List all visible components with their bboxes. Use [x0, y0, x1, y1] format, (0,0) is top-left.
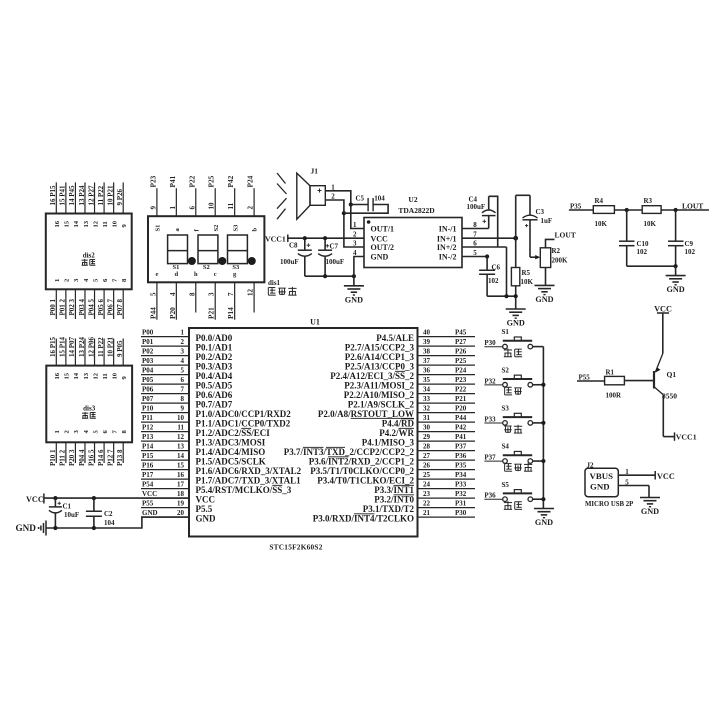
capacitor C6 102 [479, 257, 500, 297]
svg-text:dis2: dis2 [83, 252, 96, 260]
capacitor C7 100uF [318, 236, 344, 276]
svg-text:VCC: VCC [196, 494, 216, 504]
U1 left pin 2 (P01) [141, 338, 233, 352]
svg-text:P22: P22 [455, 386, 467, 394]
capacitor C5 104 [344, 195, 388, 214]
svg-text:10: 10 [208, 202, 216, 210]
svg-text:P33: P33 [455, 481, 467, 489]
U1 left pin 12 (P13) [141, 433, 266, 447]
svg-text:P01 2: P01 2 [59, 298, 67, 315]
ground top-right [666, 276, 686, 295]
svg-text:P03: P03 [142, 357, 154, 365]
potentiometer R2 200K [530, 230, 576, 285]
svg-text:25: 25 [423, 471, 431, 479]
svg-text:9 P26: 9 P26 [116, 188, 124, 205]
U1 right pin 30 (P42) [379, 424, 475, 438]
svg-text:P0.4/AD4: P0.4/AD4 [196, 371, 233, 381]
svg-text:P3.4/T0/T1CLKO/ECI_2: P3.4/T0/T1CLKO/ECI_2 [317, 475, 414, 485]
svg-text:d: d [175, 271, 179, 278]
U1 right pin 23 (P32) [374, 490, 475, 504]
U1 left pin 1 (P00) [141, 329, 233, 343]
svg-text:c: c [214, 271, 217, 278]
svg-text:3: 3 [181, 348, 185, 356]
svg-text:200K: 200K [552, 257, 569, 265]
svg-text:P1.4/ADC4/MISO: P1.4/ADC4/MISO [196, 447, 266, 457]
svg-text:P2.5/A13/CCP0_3: P2.5/A13/CCP0_3 [345, 361, 415, 371]
svg-text:C9: C9 [685, 240, 694, 248]
U1 right pin 22 (P31) [363, 500, 475, 514]
MCU U1 box [189, 318, 418, 537]
U1 right pin 35 (P23) [344, 376, 475, 390]
U1 right pin 27 (P36) [309, 452, 475, 466]
svg-text:IN-/1: IN-/1 [439, 225, 457, 234]
svg-text:P11 2: P11 2 [59, 449, 67, 466]
push button S3 (P33) [484, 405, 543, 434]
svg-text:P0.2/AD2: P0.2/AD2 [196, 352, 233, 362]
svg-text:12 P06: 12 P06 [87, 336, 95, 357]
svg-text:P14: P14 [142, 443, 154, 451]
svg-text:C8: C8 [289, 242, 298, 250]
svg-text:4: 4 [181, 357, 185, 365]
svg-text:22: 22 [423, 500, 431, 508]
U1 left pin 16 (P17) [141, 471, 301, 485]
svg-text:P26: P26 [455, 348, 467, 356]
svg-text:104: 104 [374, 195, 385, 203]
svg-text:P23: P23 [148, 175, 157, 187]
svg-text:P41: P41 [455, 433, 467, 441]
svg-text:18: 18 [177, 490, 185, 498]
power VCC above Q1 [654, 304, 672, 353]
svg-text:P32: P32 [455, 490, 467, 498]
connector J2 MICRO USB 2P [585, 462, 633, 508]
svg-text:P3.1/TXD/T2: P3.1/TXD/T2 [363, 504, 415, 514]
svg-text:LOUT: LOUT [682, 201, 703, 210]
audio amplifier U2 TDA2822D [353, 195, 477, 268]
svg-text:U1: U1 [310, 318, 320, 327]
svg-text:11: 11 [102, 373, 109, 379]
svg-text:10uF: 10uF [64, 511, 79, 519]
svg-text:13 P24: 13 P24 [78, 336, 86, 357]
svg-text:P44: P44 [148, 307, 157, 319]
U1 left pin 13 (P14) [141, 443, 265, 457]
U1 left pin 20 (GND) [141, 509, 216, 523]
svg-text:GND: GND [196, 513, 217, 523]
U1 left pin 6 (P05) [141, 376, 233, 390]
svg-text:P20 3: P20 3 [68, 449, 76, 466]
svg-text:100uF: 100uF [280, 258, 299, 266]
svg-text:S2: S2 [502, 366, 510, 374]
U1 right pin 33 (P21) [348, 395, 475, 409]
svg-text:P20: P20 [455, 405, 467, 413]
svg-text:S1: S1 [155, 225, 162, 232]
power VCC rail to U1 pin18 [26, 494, 189, 504]
svg-text:S1: S1 [502, 328, 510, 336]
svg-text:1: 1 [54, 430, 61, 433]
svg-text:15: 15 [64, 220, 71, 227]
svg-text:IN+/1: IN+/1 [437, 234, 457, 243]
U1 right pin 28 (P37) [284, 443, 475, 457]
svg-text:P05 6: P05 6 [97, 298, 105, 315]
svg-text:10 P21: 10 P21 [106, 185, 114, 206]
svg-text:P5.4/RST/MCLKO/SS_3: P5.4/RST/MCLKO/SS_3 [196, 485, 292, 495]
svg-text:R4: R4 [595, 197, 604, 205]
wire U2 pin8 to C4 [462, 216, 489, 229]
svg-text:P15: P15 [142, 452, 154, 460]
svg-text:2: 2 [181, 338, 185, 346]
svg-text:2: 2 [247, 206, 255, 210]
svg-text:GND: GND [666, 285, 684, 294]
capacitor C4 100uF [467, 196, 496, 224]
7-segment display dis1 (3-digit) [148, 175, 264, 319]
svg-text:P23: P23 [455, 376, 467, 384]
svg-text:P0.5/AD5: P0.5/AD5 [196, 380, 233, 390]
svg-text:P4.5/ALE: P4.5/ALE [376, 333, 414, 343]
svg-text:16: 16 [54, 220, 61, 227]
svg-text:P1.7/ADC7/TXD_3/XTAL1: P1.7/ADC7/TXD_3/XTAL1 [196, 475, 302, 485]
svg-text:GND: GND [507, 319, 525, 328]
U1 right pin 31 (P44) [382, 414, 475, 428]
push button S2 (P32) [484, 366, 543, 395]
dot-matrix display dis3 [46, 336, 132, 466]
svg-text:P2.0/A8/RSTOUT_LOW: P2.0/A8/RSTOUT_LOW [318, 409, 414, 419]
svg-text:12: 12 [92, 372, 99, 379]
capacitor C8 100uF [280, 236, 312, 276]
svg-text:7: 7 [181, 386, 185, 394]
svg-text:33: 33 [423, 395, 431, 403]
svg-text:h: h [194, 271, 198, 278]
svg-text:P2.1/A9/SCLK_2: P2.1/A9/SCLK_2 [348, 399, 415, 409]
svg-text:P4.4/RD: P4.4/RD [382, 418, 415, 428]
svg-text:10: 10 [111, 372, 118, 379]
svg-text:VCC: VCC [26, 495, 44, 504]
ground under J2 [640, 498, 660, 517]
svg-text:11 P22: 11 P22 [97, 337, 105, 357]
svg-text:6: 6 [188, 206, 196, 210]
wire U2 pin5 to C6 [462, 254, 489, 258]
svg-text:10 P21: 10 P21 [106, 336, 114, 357]
svg-text:U2: U2 [408, 195, 417, 204]
wire J2 pin1 to VCC [618, 468, 675, 481]
svg-text:P55: P55 [579, 373, 591, 381]
svg-text:S5: S5 [502, 481, 510, 489]
svg-text:4: 4 [169, 292, 177, 296]
svg-text:P2.3/A11/MOSI_2: P2.3/A11/MOSI_2 [344, 380, 414, 390]
label dis1 shumaguan [268, 279, 297, 295]
svg-text:IN-/2: IN-/2 [439, 253, 457, 262]
capacitor C3 1uF [516, 195, 552, 257]
svg-text:17: 17 [177, 481, 185, 489]
MCU part number STC15F2K60S2 [269, 542, 322, 551]
svg-text:P45: P45 [455, 329, 467, 337]
svg-text:C10: C10 [637, 240, 650, 248]
svg-text:15: 15 [177, 462, 185, 470]
U1 left pin 7 (P06) [141, 386, 233, 400]
U1 left pin 11 (P12) [141, 424, 270, 438]
svg-text:21: 21 [423, 509, 431, 517]
svg-text:P22: P22 [187, 175, 196, 187]
svg-text:C6: C6 [492, 263, 501, 271]
capacitor C10 102 [619, 210, 649, 266]
svg-text:10K: 10K [521, 278, 534, 286]
U1 right pin 38 (P26) [345, 348, 475, 362]
svg-text:29: 29 [423, 433, 431, 441]
svg-text:S3: S3 [232, 224, 239, 232]
svg-text:104: 104 [104, 519, 115, 527]
svg-text:1: 1 [169, 206, 177, 210]
wire C8/C7 ground rail [305, 274, 356, 278]
svg-text:32: 32 [423, 405, 431, 413]
svg-text:11: 11 [177, 424, 184, 432]
net VCC1 at Q1 collector [675, 432, 697, 441]
svg-text:P1.2/ADC2/SS/ECI: P1.2/ADC2/SS/ECI [196, 428, 271, 438]
svg-text:3: 3 [208, 292, 216, 296]
svg-text:37: 37 [423, 357, 431, 365]
svg-text:8: 8 [188, 292, 196, 296]
svg-text:39: 39 [423, 338, 431, 346]
svg-text:P06 7: P06 7 [106, 298, 114, 315]
digit 2 of dis1 [198, 235, 226, 271]
wire U2 pin4 to ground [354, 257, 364, 286]
svg-text:P54: P54 [142, 481, 154, 489]
dot-matrix display dis2 [46, 182, 132, 319]
U1 left pin 3 (P02) [141, 348, 233, 362]
svg-text:102: 102 [637, 248, 648, 256]
svg-text:P04 5: P04 5 [87, 298, 95, 315]
svg-text:10K: 10K [644, 220, 657, 228]
svg-text:P5.5: P5.5 [196, 504, 213, 514]
svg-text:P25: P25 [455, 357, 467, 365]
svg-text:P36: P36 [455, 452, 467, 460]
resistor R1 100R [605, 368, 654, 399]
svg-text:P1.6/ADC6/RXD_3/XTAL2: P1.6/ADC6/RXD_3/XTAL2 [196, 466, 302, 476]
svg-text:P04: P04 [142, 367, 154, 375]
svg-text:P37: P37 [455, 443, 467, 451]
svg-text:9 P05: 9 P05 [116, 340, 124, 357]
svg-text:P33: P33 [484, 415, 496, 423]
svg-text:1: 1 [331, 183, 335, 191]
svg-text:28: 28 [423, 443, 431, 451]
svg-text:GND: GND [535, 518, 553, 527]
svg-text:VBUS: VBUS [590, 471, 614, 481]
svg-text:16 P15: 16 P15 [49, 336, 57, 357]
svg-text:J1: J1 [311, 167, 319, 176]
push button S5 (P36) [484, 481, 543, 510]
push button S4 (P37) [484, 443, 543, 472]
svg-text:P16 5: P16 5 [87, 449, 95, 466]
svg-text:P1.5/ADC5/SCLK: P1.5/ADC5/SCLK [196, 456, 266, 466]
wire button common bus to ground [541, 347, 545, 509]
svg-text:S1: S1 [173, 264, 180, 271]
ground under buttons [534, 509, 554, 528]
svg-text:16: 16 [54, 372, 61, 379]
svg-text:11: 11 [102, 221, 109, 227]
speaker sound waves [277, 173, 287, 219]
svg-text:P42: P42 [455, 424, 467, 432]
svg-text:P35: P35 [570, 202, 582, 210]
svg-text:100uF: 100uF [326, 258, 345, 266]
svg-text:14: 14 [73, 220, 80, 227]
wire C4 top to U2 pin6 and ground [462, 196, 507, 296]
U1 right pin 25 (P34) [317, 471, 475, 485]
svg-text:1: 1 [181, 329, 185, 337]
svg-text:15 P41: 15 P41 [59, 185, 67, 206]
U1 left pin 19 (P55) [141, 500, 213, 514]
svg-text:P07 8: P07 8 [116, 298, 124, 315]
svg-text:2: 2 [331, 193, 335, 201]
svg-text:P35: P35 [455, 462, 467, 470]
svg-text:GND: GND [641, 507, 659, 516]
svg-text:10: 10 [111, 220, 118, 227]
U1 right pin 40 (P45) [376, 329, 475, 343]
net VCC1 to U2 VCC [265, 235, 364, 244]
resistor R5 10K [511, 268, 533, 310]
svg-text:P2.6/A14/CCP1_3: P2.6/A14/CCP1_3 [345, 352, 415, 362]
svg-text:P16: P16 [142, 462, 154, 470]
svg-text:19: 19 [177, 500, 185, 508]
svg-text:P21: P21 [455, 395, 467, 403]
svg-text:12 P27: 12 P27 [87, 185, 95, 206]
svg-text:13: 13 [83, 372, 90, 379]
svg-text:S2: S2 [213, 225, 220, 232]
svg-text:GND: GND [142, 509, 158, 517]
net LOUT output [682, 201, 703, 210]
svg-text:5: 5 [149, 292, 157, 296]
svg-text:VCC: VCC [657, 472, 675, 481]
svg-text:5: 5 [181, 367, 185, 375]
svg-text:P2.4/A12/ECI_3/SS_2: P2.4/A12/ECI_3/SS_2 [330, 371, 414, 381]
U1 left pin 4 (P03) [141, 357, 233, 371]
svg-text:P34: P34 [455, 471, 467, 479]
svg-text:P37: P37 [484, 454, 496, 462]
svg-text:P1.0/ADC0/CCP1/RXD2: P1.0/ADC0/CCP1/RXD2 [196, 409, 292, 419]
svg-text:P05: P05 [142, 376, 154, 384]
svg-text:b: b [252, 228, 259, 232]
svg-text:MICRO USB 2P: MICRO USB 2P [585, 501, 633, 508]
svg-text:P44: P44 [455, 414, 467, 422]
svg-text:1: 1 [353, 221, 357, 229]
svg-text:P0.7/AD7: P0.7/AD7 [196, 399, 233, 409]
transistor Q1 8550 PNP [654, 354, 677, 437]
svg-text:R2: R2 [552, 247, 561, 255]
svg-text:P00: P00 [142, 329, 154, 337]
U1 left pin 14 (P15) [141, 452, 266, 466]
svg-text:14 P45: 14 P45 [68, 185, 76, 206]
svg-text:P10: P10 [142, 405, 154, 413]
svg-text:P1.1/ADC1/CCP0/TXD2: P1.1/ADC1/CCP0/TXD2 [196, 418, 291, 428]
svg-text:IN+/2: IN+/2 [437, 243, 457, 252]
speaker J1 [297, 167, 326, 220]
svg-text:P24: P24 [455, 367, 467, 375]
svg-text:P03 4: P03 4 [78, 298, 86, 315]
svg-text:P07: P07 [142, 395, 154, 403]
U1 right pin 34 (P22) [344, 386, 475, 400]
svg-text:P12: P12 [142, 424, 154, 432]
svg-text:S4: S4 [502, 443, 510, 451]
svg-text:P13: P13 [142, 433, 154, 441]
svg-text:13: 13 [83, 220, 90, 227]
U1 left pin 10 (P11) [141, 414, 291, 428]
svg-text:GND: GND [535, 295, 553, 304]
svg-text:S2: S2 [203, 264, 210, 271]
svg-text:15: 15 [64, 372, 71, 379]
svg-text:P30: P30 [455, 509, 467, 517]
svg-text:13 P24: 13 P24 [78, 185, 86, 206]
svg-text:C7: C7 [330, 243, 339, 251]
svg-text:12: 12 [92, 220, 99, 227]
svg-text:23: 23 [423, 490, 431, 498]
svg-text:P14 6: P14 6 [97, 449, 105, 466]
svg-text:30: 30 [423, 424, 431, 432]
svg-text:34: 34 [423, 386, 431, 394]
svg-text:S3: S3 [502, 405, 510, 413]
svg-text:TDA2822D: TDA2822D [398, 206, 435, 215]
svg-text:P0.0/AD0: P0.0/AD0 [196, 333, 233, 343]
svg-text:12: 12 [177, 433, 185, 441]
svg-text:P2.2/A10/MISO_2: P2.2/A10/MISO_2 [344, 390, 415, 400]
svg-text:36: 36 [423, 367, 431, 375]
svg-text:VCC: VCC [371, 234, 389, 243]
svg-text:P3.0/RXD/INT4/T2CLKO: P3.0/RXD/INT4/T2CLKO [313, 513, 414, 523]
svg-text:16: 16 [177, 471, 185, 479]
U1 left pin 17 (P54) [141, 481, 292, 495]
svg-text:P14: P14 [226, 307, 235, 319]
svg-text:10K: 10K [595, 220, 608, 228]
svg-text:R5: R5 [522, 269, 531, 277]
capacitor C9 102 [668, 210, 696, 266]
svg-text:26: 26 [423, 462, 431, 470]
svg-text:P11: P11 [142, 414, 153, 422]
svg-text:102: 102 [685, 248, 696, 256]
ground bottom-left [16, 521, 47, 536]
svg-text:LOUT: LOUT [555, 230, 576, 239]
svg-text:8: 8 [181, 395, 185, 403]
svg-text:P42: P42 [226, 175, 235, 187]
svg-text:P20: P20 [168, 307, 177, 319]
svg-text:7: 7 [227, 292, 235, 296]
svg-text:Q1: Q1 [667, 370, 677, 379]
svg-text:VCC: VCC [142, 490, 157, 498]
svg-text:P06: P06 [142, 386, 154, 394]
U1 left pin 18 (VCC) [141, 490, 215, 504]
svg-text:2: 2 [353, 231, 357, 239]
capacitor C1 10uF [49, 498, 79, 528]
svg-text:P02 3: P02 3 [68, 298, 76, 315]
svg-text:12: 12 [247, 289, 255, 297]
svg-text:5: 5 [625, 478, 629, 486]
svg-text:P2.7/A15/CCP2_3: P2.7/A15/CCP2_3 [345, 342, 415, 352]
U1 left pin 9 (P10) [141, 405, 291, 419]
svg-text:S3: S3 [232, 264, 240, 271]
svg-text:P4.2/WR: P4.2/WR [379, 428, 414, 438]
svg-text:P30: P30 [484, 339, 496, 347]
svg-text:P0.3/AD3: P0.3/AD3 [196, 361, 233, 371]
svg-text:100uF: 100uF [467, 203, 486, 211]
svg-text:9: 9 [149, 206, 157, 210]
U1 right pin 26 (P35) [310, 462, 475, 476]
svg-text:P10 1: P10 1 [49, 449, 57, 466]
svg-text:C3: C3 [536, 208, 545, 216]
svg-text:P3.3/INT1: P3.3/INT1 [374, 485, 414, 495]
svg-text:R3: R3 [644, 197, 653, 205]
svg-text:C1: C1 [63, 503, 72, 511]
svg-text:P17: P17 [142, 471, 154, 479]
svg-text:P3.2/INT0: P3.2/INT0 [374, 494, 414, 504]
digit 1 of dis1 [168, 235, 196, 271]
svg-text:P0.1/AD1: P0.1/AD1 [196, 342, 233, 352]
svg-text:P0.6/AD6: P0.6/AD6 [196, 390, 233, 400]
svg-text:VCC1: VCC1 [265, 235, 286, 244]
svg-text:GND: GND [590, 482, 610, 492]
